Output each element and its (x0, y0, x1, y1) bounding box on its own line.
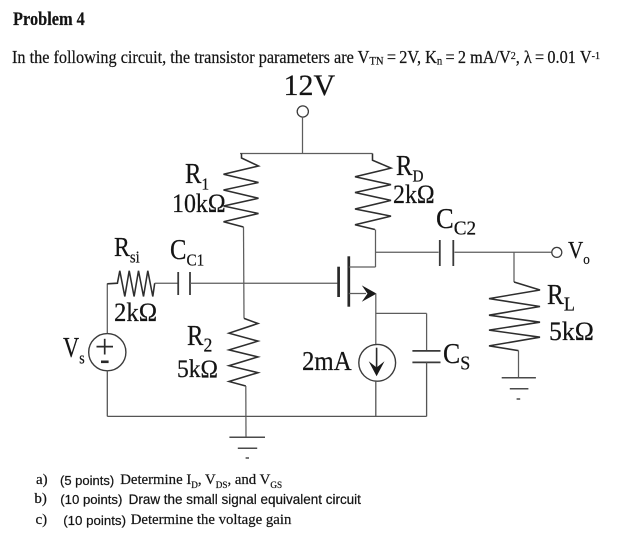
wire Vs top (106, 284, 108, 334)
wire source to Cs (376, 312, 427, 314)
label R1 (185, 161, 209, 189)
wire RL to ground (518, 351, 520, 378)
wire Rsi to CC1 (155, 282, 178, 284)
wire Vs bottom (106, 371, 108, 417)
label 2k ohm (Rsi) (114, 300, 157, 326)
source Vs (89, 334, 126, 371)
wire gate (190, 282, 337, 284)
label Vo (568, 239, 590, 263)
capacitor Cs (412, 351, 440, 363)
resistor Rsi (107, 271, 154, 297)
ground (under RL) (502, 378, 536, 399)
resistor RD (355, 154, 391, 230)
current source 2mA (359, 344, 396, 381)
label 2mA (302, 348, 352, 375)
transistor Q1 channel bar (347, 256, 350, 306)
wire source vertical (above current source) (375, 294, 377, 345)
wire CC2 to Vo (455, 251, 552, 253)
capacitor CC1 (178, 272, 190, 295)
transistor Q1 gate bar (337, 267, 340, 297)
label RD (396, 153, 423, 181)
wire Cs bottom (426, 362, 428, 416)
title (13, 10, 85, 29)
label 2k ohm (RD) (393, 182, 435, 208)
wire bottom rail (107, 415, 426, 417)
wire drain vertical (375, 230, 377, 268)
label CC2 (436, 206, 476, 234)
wire RL branch vertical (513, 252, 515, 282)
terminal Vo (552, 247, 562, 257)
resistor RL (489, 282, 540, 351)
label RL (547, 282, 575, 310)
label 5k ohm (R2) (177, 356, 218, 382)
12V supply terminal (297, 106, 308, 117)
question c (36, 513, 48, 528)
resistor R2 (229, 318, 258, 386)
wire Cs top (426, 313, 428, 350)
label Vs (63, 335, 85, 363)
wire current source to rail (375, 381, 377, 416)
label Cs (443, 341, 470, 369)
label 5k ohm (RL) (549, 319, 594, 345)
label CC1 (170, 237, 204, 265)
wire source with arrow (349, 293, 366, 295)
wire supply stub (302, 117, 304, 154)
wire R2 to ground (245, 386, 247, 437)
capacitor CC2 (440, 240, 454, 266)
label 10k ohm (172, 191, 226, 217)
wire drain to CC2 (376, 251, 439, 253)
question b (34, 492, 47, 507)
label Rsi (114, 234, 140, 261)
ground (under R2) (229, 437, 265, 458)
problem statement (12, 49, 600, 68)
wire top rail (240, 153, 373, 155)
wire drain (349, 266, 376, 268)
label 12V (284, 71, 336, 101)
wire divider vertical (243, 227, 246, 318)
label R2 (187, 323, 212, 351)
resistor R1 (224, 154, 259, 228)
question a (36, 473, 48, 488)
